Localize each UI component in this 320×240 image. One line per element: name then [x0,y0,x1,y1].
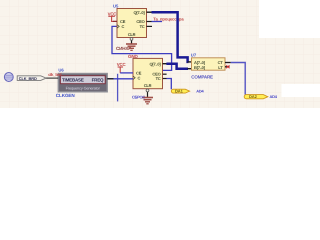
svg-text:C: C [122,24,125,29]
bus Q1 to comparator A [152,12,189,62]
svg-text:U7: U7 [191,52,197,57]
svg-text:AD4: AD4 [196,89,204,94]
pin stub CEO2 [163,73,167,75]
ground (IC1 CLR) [126,44,137,50]
pin stub FREQ out [107,78,113,80]
pin CLR2 with bubble [147,92,149,98]
clock wedge on C pin [117,25,119,29]
counter U6 [133,58,163,88]
comparator U7 [192,58,226,70]
white overlay block top-right [259,0,320,38]
counter U5 [117,9,147,38]
wire CT to flag DA2 [231,63,245,95]
port CLK_BRD [17,76,46,81]
wire stub vertical (dangling net below VCC junction) [117,74,119,102]
pin stub A (comparator) [188,61,192,63]
pin stub CE1 [113,20,117,22]
wire CLK_BRD to TIMEBASE input [46,77,58,79]
flag DA1 [171,89,189,94]
ground (IC2 CLR) [142,98,153,104]
svg-text:clk_brd: clk_brd [48,72,62,77]
pin stub Q2 [163,63,167,65]
svg-text:DA1: DA1 [175,89,184,94]
svg-text:VCC: VCC [117,62,127,67]
svg-text:COMPARE: COMPARE [191,74,213,79]
svg-text:DA2: DA2 [249,94,258,99]
svg-text:AD4: AD4 [270,94,278,99]
svg-text:СБРОС: СБРОС [132,94,145,99]
wire CEO1 (to processor) [152,21,163,23]
pin stub Q1 [147,11,152,13]
svg-text:Q[7..0]: Q[7..0] [133,10,145,15]
svg-text:Q[7..0]: Q[7..0] [149,62,161,67]
pin stub CEO1 [147,21,152,23]
pin CLR1 with bubble [131,40,133,44]
bus Q2 to comparator B [166,64,188,69]
svg-text:CLK_BRD: CLK_BRD [19,76,37,81]
pin stub B (comparator) [188,68,192,70]
svg-text:U5: U5 [113,4,119,9]
no-connect X on LT [226,65,229,68]
power VCC (for IC1 CE) [108,16,117,21]
svg-text:TC: TC [156,76,161,81]
wire VCC to CE2 [120,72,133,74]
svg-text:C: C [138,76,141,81]
power VCC (for IC2 CE) [118,67,123,73]
schematic sheet background [0,0,320,108]
wire FREQ to C2 [107,78,133,80]
wire CEO2 to IC1 C (net СИНХР) [112,26,172,70]
generator CLKGEN (TIMEBASE box) [58,74,107,92]
pin stub TC1 [147,25,153,27]
svg-text:TC: TC [140,24,145,29]
svg-text:FREQ: FREQ [92,77,104,82]
flag DA2 [244,94,268,99]
pin stub TC2 + wire to flag DA1 [163,78,167,80]
svg-text:CLR: CLR [128,32,136,37]
svg-text:CLKGEN: CLKGEN [56,93,76,98]
svg-text:Frequency Generator: Frequency Generator [66,86,101,90]
clock wedge on C pin (U6) [133,76,135,80]
svg-text:B[7..0]: B[7..0] [194,65,206,70]
icon (blue circle marker) [4,73,13,82]
svg-text:CLR: CLR [144,83,152,88]
pin stub LT [225,66,230,68]
svg-text:Та_процессора: Та_процессора [153,17,184,22]
svg-text:VCC: VCC [108,11,118,16]
white overlay block bottom-right [282,84,320,97]
svg-text:TIMEBASE: TIMEBASE [62,78,84,83]
pin stub CT [225,62,231,64]
